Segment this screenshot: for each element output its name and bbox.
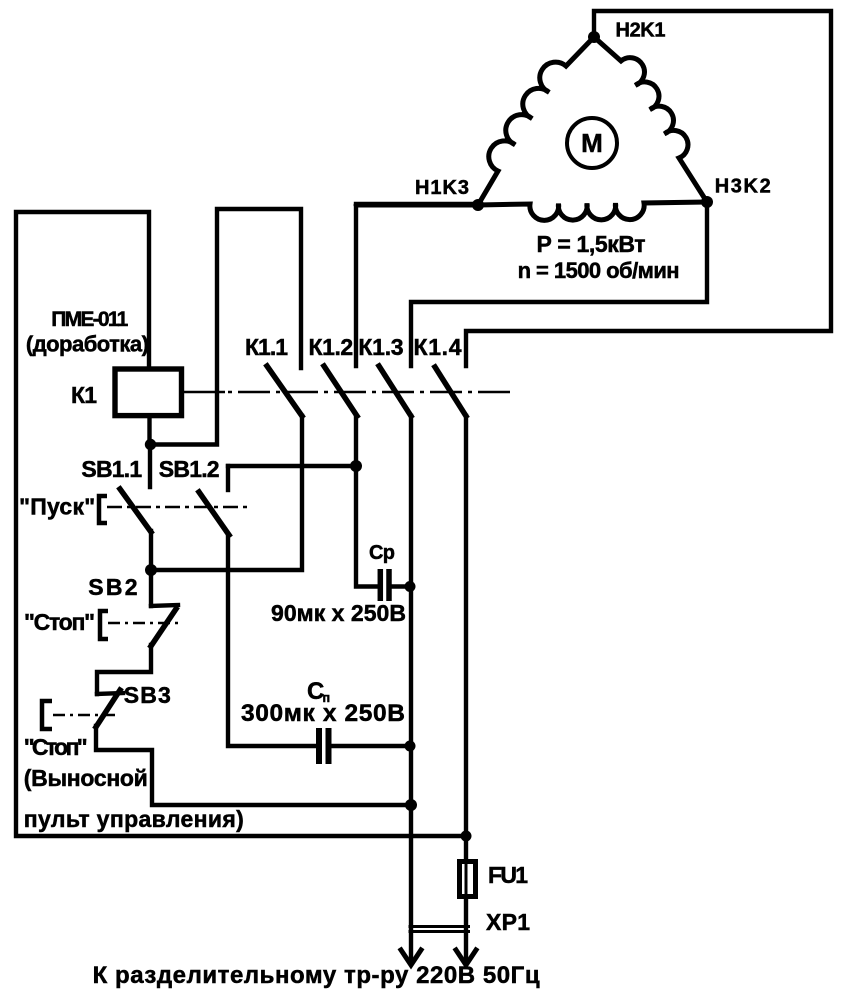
svg-text:К1.3: К1.3 xyxy=(358,334,403,360)
svg-text:H3K2: H3K2 xyxy=(715,176,771,198)
svg-text:(доработка): (доработка) xyxy=(26,332,149,357)
svg-text:n = 1500 об/мин: n = 1500 об/мин xyxy=(518,258,680,283)
svg-text:SB3: SB3 xyxy=(124,682,171,708)
svg-text:К1.4: К1.4 xyxy=(414,334,462,360)
svg-text:300мк х 250В: 300мк х 250В xyxy=(241,700,405,727)
svg-text:М: М xyxy=(581,128,603,158)
svg-text:FU1: FU1 xyxy=(488,862,528,888)
svg-text:ПМЕ-011: ПМЕ-011 xyxy=(51,308,128,331)
svg-text:"Стоп": "Стоп" xyxy=(24,609,95,635)
svg-text:(Выносной: (Выносной xyxy=(24,765,148,791)
svg-text:SB2: SB2 xyxy=(88,574,137,600)
svg-text:ХР1: ХР1 xyxy=(486,909,530,935)
svg-text:H2K1: H2K1 xyxy=(616,20,666,42)
svg-text:90мк х 250В: 90мк х 250В xyxy=(271,600,406,626)
svg-text:К разделительному тр-ру 220В: К разделительному тр-ру 220В 50Гц xyxy=(93,962,540,989)
svg-text:Ср: Ср xyxy=(369,542,395,564)
svg-text:К1.2: К1.2 xyxy=(309,334,354,360)
svg-text:К1.1: К1.1 xyxy=(245,334,288,360)
svg-text:К1: К1 xyxy=(71,382,97,408)
svg-text:SB1.1: SB1.1 xyxy=(81,456,142,482)
svg-text:"Пуск": "Пуск" xyxy=(19,494,95,520)
svg-text:пульт управления): пульт управления) xyxy=(24,806,244,832)
svg-text:Р = 1,5кВт: Р = 1,5кВт xyxy=(537,231,646,257)
svg-text:H1K3: H1K3 xyxy=(415,177,469,199)
svg-text:"Стоп": "Стоп" xyxy=(24,734,88,760)
svg-text:SB1.2: SB1.2 xyxy=(159,456,220,482)
